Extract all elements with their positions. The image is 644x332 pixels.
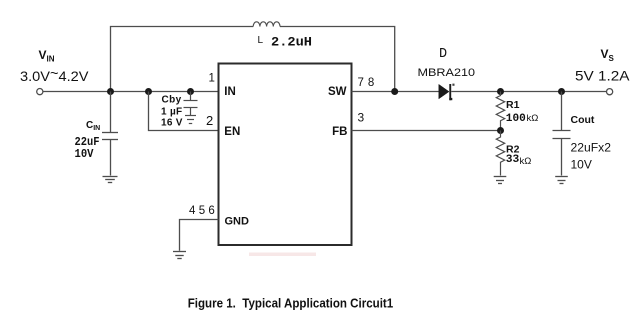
diode D cathode bar [449, 84, 451, 100]
resistor R1 [496, 92, 504, 131]
faded watermark under IC [249, 253, 316, 257]
svg-text:78: 78 [358, 77, 379, 89]
svg-text:GND: GND [225, 215, 250, 227]
svg-text:SW: SW [328, 86, 347, 98]
node VIN terminal [37, 89, 43, 95]
ground under CIN [103, 177, 118, 183]
svg-text:kΩ: kΩ [520, 156, 532, 167]
wire FB [352, 130, 501, 132]
svg-text:D: D [439, 47, 447, 62]
svg-text:5V 1.2A: 5V 1.2A [575, 68, 630, 84]
svg-text:MBRA210: MBRA210 [418, 67, 476, 79]
svg-text:33: 33 [506, 154, 520, 166]
ground under Cby [185, 116, 196, 124]
diode D triangle [439, 84, 449, 98]
svg-text:10V: 10V [75, 147, 95, 161]
node junction FB divider [497, 127, 504, 134]
svg-text:100: 100 [506, 113, 526, 125]
svg-text:1: 1 [209, 73, 215, 85]
svg-text:1 µF: 1 µF [161, 106, 182, 117]
node junction EN drop [145, 88, 152, 95]
diode D schottky tick top [452, 84, 454, 86]
wire SW to diode [352, 91, 439, 93]
ground under Cout [555, 177, 568, 184]
diode D schottky foot bottom [449, 98, 452, 100]
ground under GND pin [173, 252, 186, 259]
node junction R1 top [497, 88, 504, 95]
wire input rail [43, 91, 219, 93]
svg-text:Figure 1. Typical Application: Figure 1. Typical Application Circuit1 [188, 296, 394, 311]
svg-text:EN: EN [224, 126, 240, 138]
svg-text:22uFx2: 22uFx2 [571, 141, 612, 155]
svg-text:Cout: Cout [571, 114, 595, 126]
wire diode to output [451, 91, 606, 93]
svg-text:3: 3 [358, 111, 365, 125]
capacitor CIN [102, 92, 118, 176]
node VS terminal [607, 89, 613, 95]
node junction SW top rail [391, 88, 398, 95]
svg-text:kΩ: kΩ [527, 113, 539, 124]
wire EN connection [149, 92, 219, 131]
svg-text:456: 456 [189, 205, 218, 217]
svg-text:R1: R1 [506, 99, 520, 111]
wire top rail left segment [111, 27, 254, 92]
svg-text:Cby: Cby [162, 95, 182, 106]
wire GND pin [180, 220, 219, 251]
svg-text:16 V: 16 V [161, 118, 183, 129]
svg-text:L: L [258, 35, 264, 46]
capacitor Cby [184, 92, 198, 116]
ground under R2 [494, 177, 507, 184]
svg-text:2: 2 [206, 113, 213, 128]
node junction Cby [187, 88, 194, 95]
op-amp U1 IC body [219, 64, 352, 246]
resistor R2 [496, 131, 504, 176]
svg-text:2.2uH: 2.2uH [271, 36, 312, 50]
svg-text:10V: 10V [571, 158, 592, 172]
inductor L1 coil [253, 22, 280, 27]
svg-text:FB: FB [332, 126, 347, 138]
node junction Cout top [558, 88, 565, 95]
svg-text:IN: IN [224, 86, 236, 98]
wire top rail right segment [280, 27, 395, 92]
node junction input/CIN [107, 88, 114, 95]
capacitor Cout [553, 92, 571, 176]
